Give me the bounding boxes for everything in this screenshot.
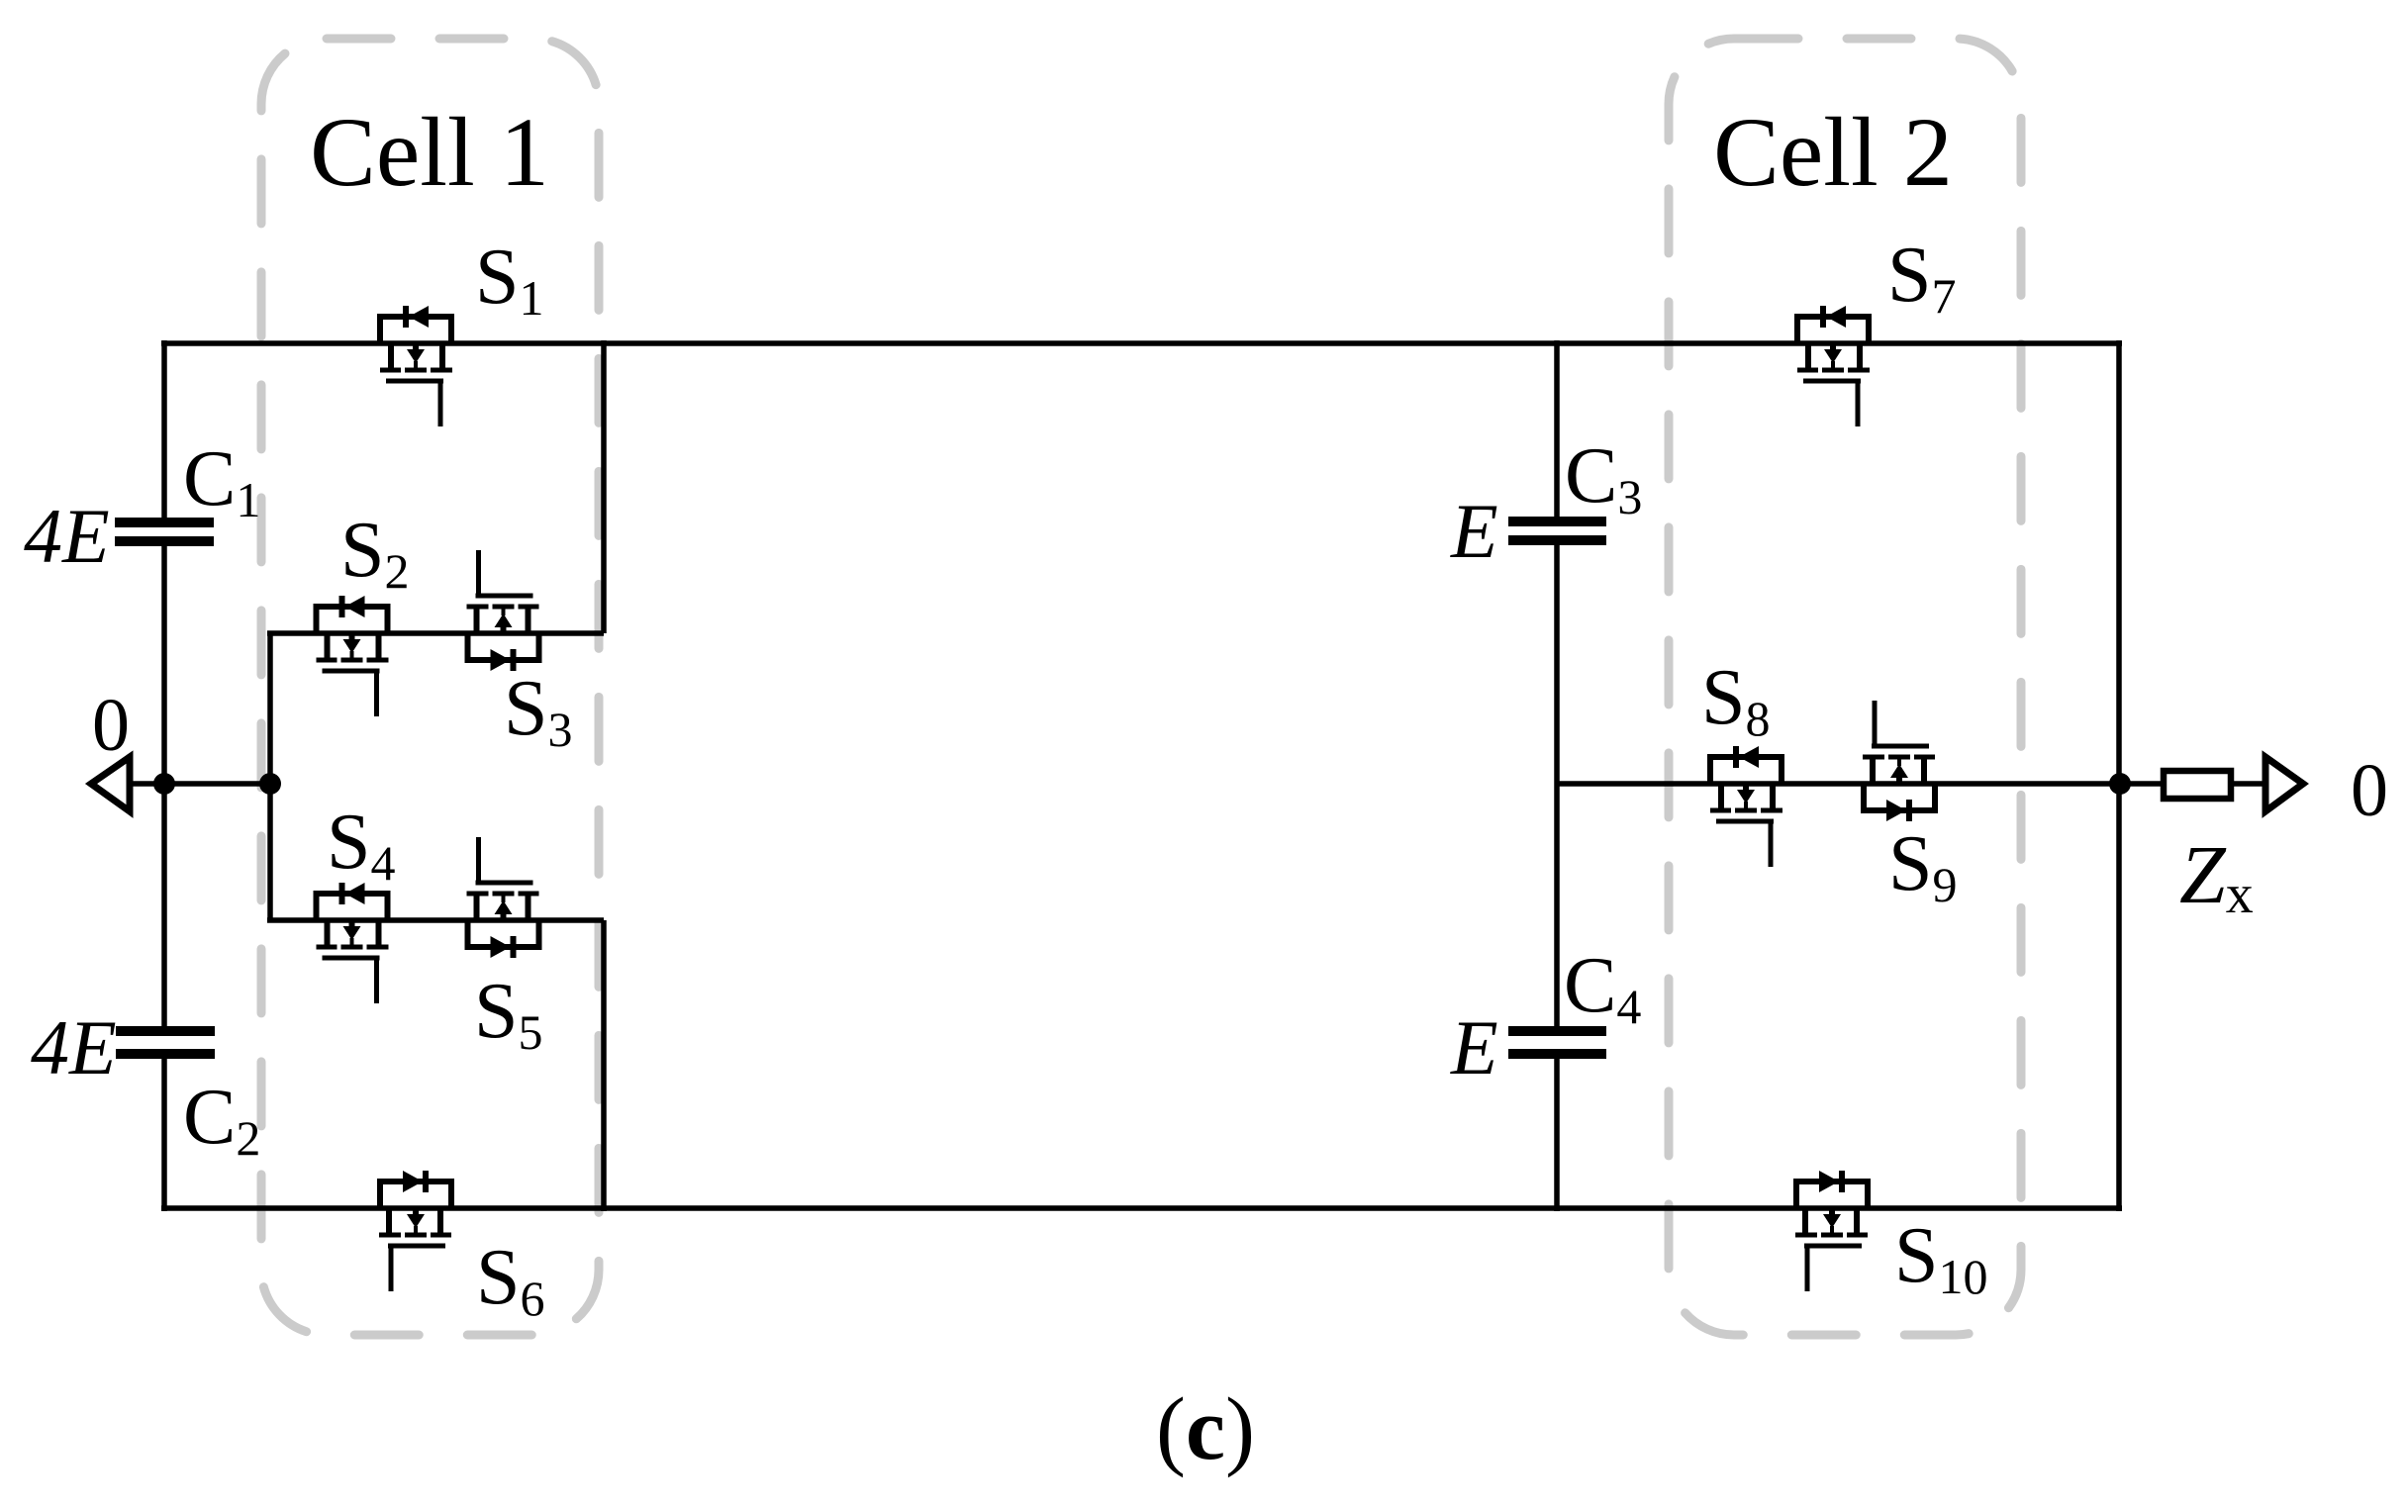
node output junction dot [2109, 773, 2131, 795]
transistor S9 [1863, 701, 1935, 821]
transistor S4 [317, 883, 389, 1003]
wire left rail lower [161, 1057, 167, 1211]
svg-text:C1: C1 [183, 435, 260, 527]
arrow output 0 left [91, 757, 130, 811]
wire cell1 mid rail lower [601, 920, 607, 1211]
svg-text:S2: S2 [340, 507, 410, 599]
transistor S1 [380, 306, 452, 426]
svg-text:0: 0 [92, 684, 130, 767]
svg-text:C3: C3 [1565, 432, 1642, 524]
wire cell1 mid rail upper [601, 340, 607, 633]
svg-text:Cell 1: Cell 1 [310, 97, 549, 207]
transistor S8 [1710, 746, 1782, 867]
transistor S5 [467, 837, 539, 958]
svg-text:Zx: Zx [2179, 829, 2254, 925]
wire S8-S9 row [1557, 781, 2119, 787]
wire output rail [2116, 340, 2122, 1211]
wire bottom rail [161, 1205, 2122, 1211]
svg-text:S5: S5 [474, 968, 543, 1060]
resistor Zx [2164, 771, 2231, 799]
svg-text:S8: S8 [1701, 654, 1771, 746]
capacitor C4 [1508, 1026, 1606, 1059]
capacitor C1 [115, 518, 214, 546]
svg-text:E: E [1450, 488, 1498, 574]
svg-text:(c): (c) [1156, 1380, 1255, 1478]
svg-text:S1: S1 [475, 234, 544, 326]
wire right inner rail middle [1554, 543, 1560, 1028]
transistor S3 [467, 550, 539, 671]
svg-text:Cell 2: Cell 2 [1713, 97, 1953, 207]
svg-text:0: 0 [2351, 749, 2388, 832]
wire left rail upper [161, 340, 167, 519]
node 0 junction dot left [153, 773, 175, 795]
svg-text:C4: C4 [1564, 942, 1641, 1034]
svg-text:4E: 4E [31, 1004, 117, 1090]
wire output stub [2119, 781, 2268, 787]
transistor S7 [1797, 306, 1870, 426]
wire top rail [161, 340, 2122, 346]
svg-text:E: E [1450, 1004, 1498, 1090]
wire right inner rail upper [1554, 340, 1560, 519]
svg-text:S10: S10 [1894, 1212, 1988, 1304]
wire inner junction rail [267, 633, 273, 920]
transistor S10 [1795, 1171, 1868, 1291]
svg-text:S9: S9 [1888, 820, 1958, 912]
svg-text:S7: S7 [1887, 232, 1957, 324]
capacitor C3 [1508, 517, 1606, 545]
wire S2-S3 row [267, 630, 604, 636]
svg-text:S4: S4 [327, 799, 396, 891]
wire right inner rail lower [1554, 1057, 1560, 1211]
cell 1 dashed boundary [261, 39, 599, 1335]
wire node-0 stub [127, 781, 270, 787]
node junction dot inner [259, 773, 281, 795]
capacitor C2 [116, 1026, 215, 1059]
wire S4-S5 row [267, 917, 604, 923]
svg-text:S3: S3 [504, 665, 573, 757]
arrow output 0 right [2265, 757, 2303, 811]
transistor S2 [317, 596, 389, 716]
wire left rail middle [161, 544, 167, 1028]
svg-text:C2: C2 [183, 1074, 260, 1166]
transistor S6 [379, 1171, 451, 1291]
svg-text:4E: 4E [24, 493, 110, 579]
cell 2 dashed boundary [1669, 39, 2021, 1335]
svg-text:S6: S6 [476, 1234, 545, 1326]
